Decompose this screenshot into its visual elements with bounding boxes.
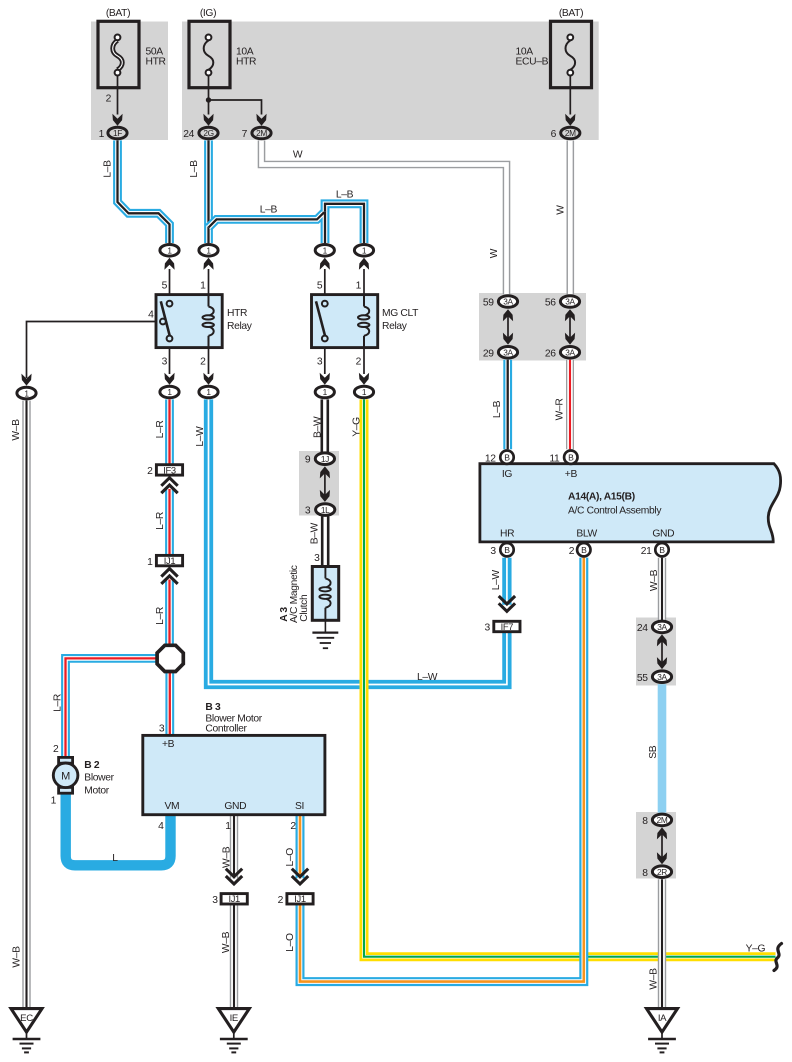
- svg-text:IJ1: IJ1: [164, 555, 176, 566]
- svg-text:HTR: HTR: [236, 56, 256, 67]
- svg-text:B: B: [581, 545, 587, 555]
- svg-text:26: 26: [545, 348, 556, 359]
- svg-text:IJ1: IJ1: [228, 893, 240, 904]
- connector 2 IJ1 below controller SI: [292, 869, 308, 884]
- svg-text:8: 8: [642, 816, 648, 827]
- svg-text:3: 3: [162, 357, 168, 368]
- svg-text:W: W: [556, 205, 567, 215]
- fuse 10A HTR: [189, 21, 230, 87]
- svg-text:HR: HR: [500, 529, 514, 540]
- svg-text:L–B: L–B: [492, 400, 503, 418]
- connector 3 IJ1 below controller GND: [226, 869, 242, 884]
- relay MG CLT Relay: [312, 295, 378, 348]
- svg-text:B–W: B–W: [312, 416, 323, 438]
- wire MG CLT relay pin 2 lead: [363, 348, 365, 374]
- svg-text:L–R: L–R: [155, 421, 166, 439]
- connector 1 below HTR relay pin 3: [164, 373, 174, 385]
- svg-text:B: B: [659, 545, 665, 555]
- svg-text:MG CLT: MG CLT: [382, 308, 419, 319]
- svg-text:IF3: IF3: [163, 464, 176, 475]
- svg-text:24: 24: [637, 623, 648, 634]
- wire L-R from junction to blower motor pin 2: [66, 658, 157, 756]
- svg-text:B 2: B 2: [84, 760, 100, 771]
- svg-text:1: 1: [167, 246, 172, 256]
- svg-text:2: 2: [356, 357, 362, 368]
- svg-text:B–W: B–W: [310, 522, 321, 544]
- connector 1 below MG CLT relay pin 3: [320, 373, 330, 385]
- junction connector 29 3A: [498, 347, 517, 359]
- double arrow between 56 and 26: [569, 315, 571, 338]
- svg-text:3A: 3A: [565, 297, 575, 307]
- double arrow between 1J and 1L: [324, 472, 326, 496]
- svg-text:L–W: L–W: [417, 672, 438, 683]
- pin 3 B connector HR: [500, 543, 513, 556]
- svg-text:(IG): (IG): [200, 8, 216, 19]
- svg-text:3: 3: [317, 357, 323, 368]
- wire W from connector 2M to junction 59 3A: [262, 140, 507, 294]
- svg-text:W–B: W–B: [222, 846, 233, 868]
- svg-text:M: M: [61, 771, 70, 783]
- svg-text:EC: EC: [20, 1013, 33, 1024]
- junction dot: [206, 97, 211, 102]
- svg-text:L: L: [112, 853, 118, 864]
- svg-text:Relay: Relay: [227, 321, 253, 332]
- fuse 50A HTR: [98, 21, 139, 87]
- wire L-O from blower motor controller SI via IJ1 to A/C control assembly BLW: [296, 815, 305, 879]
- connector IJ1: [156, 555, 182, 565]
- blower motor controller B3: [143, 735, 325, 814]
- connector 2M mid: [256, 114, 266, 126]
- svg-text:L–O: L–O: [285, 933, 296, 952]
- svg-text:SB: SB: [648, 745, 659, 759]
- svg-text:L–R: L–R: [155, 607, 166, 625]
- relay HTR Relay: [156, 295, 222, 348]
- wire MG CLT relay pin 3 lead: [324, 348, 326, 374]
- svg-text:VM: VM: [165, 801, 180, 812]
- svg-text:2R: 2R: [657, 867, 667, 877]
- svg-text:B: B: [504, 452, 510, 462]
- svg-text:GND: GND: [652, 529, 674, 540]
- connector 1F: [112, 114, 122, 126]
- svg-text:Relay: Relay: [382, 321, 408, 332]
- svg-text:W–B: W–B: [221, 931, 232, 953]
- svg-text:3: 3: [314, 553, 320, 564]
- svg-text:W–B: W–B: [649, 968, 660, 990]
- svg-text:4: 4: [148, 310, 154, 321]
- wire L-B branch to MG CLT relay pin 5 connector: [209, 211, 326, 243]
- svg-text:B: B: [504, 545, 510, 555]
- svg-text:11: 11: [549, 453, 560, 464]
- svg-text:W–B: W–B: [649, 569, 660, 591]
- svg-text:IJ1: IJ1: [294, 893, 306, 904]
- svg-text:2: 2: [569, 546, 575, 557]
- svg-text:7: 7: [242, 129, 248, 140]
- connector 1 above MG CLT relay pin 1: [359, 258, 369, 270]
- svg-text:2: 2: [106, 94, 112, 105]
- svg-text:2: 2: [290, 821, 296, 832]
- ground EC: [11, 1009, 42, 1053]
- svg-text:5: 5: [317, 281, 323, 292]
- svg-text:Controller: Controller: [205, 724, 247, 735]
- A/C magnetic clutch A3: [312, 567, 338, 621]
- svg-text:1: 1: [51, 796, 57, 807]
- pin 2 B connector BLW: [577, 543, 590, 556]
- svg-text:1: 1: [356, 281, 362, 292]
- connector 1 below MG CLT relay pin 2: [359, 373, 369, 385]
- svg-text:GND: GND: [224, 801, 246, 812]
- svg-text:IG: IG: [502, 469, 513, 480]
- svg-text:L–B: L–B: [103, 160, 114, 178]
- svg-text:8: 8: [642, 868, 648, 879]
- wire fuse 10A HTR lead with junction to 2G and 2M: [209, 75, 262, 114]
- svg-text:3: 3: [490, 546, 496, 557]
- svg-text:2: 2: [147, 466, 153, 477]
- svg-text:1: 1: [206, 246, 211, 256]
- svg-text:W: W: [489, 248, 500, 258]
- svg-text:55: 55: [637, 673, 648, 684]
- wire W-R from junction 26 3A to A/C control assembly +B: [566, 360, 574, 450]
- svg-text:3A: 3A: [503, 348, 513, 358]
- wire HTR relay pin 5 lead: [169, 269, 171, 295]
- svg-text:1: 1: [99, 129, 105, 140]
- connector 1 below HTR relay pin 2: [203, 373, 213, 385]
- A/C control assembly A14/A15: [480, 464, 781, 542]
- svg-text:2M: 2M: [256, 128, 267, 138]
- fuse 10A ECU-B: [551, 21, 592, 87]
- svg-text:5: 5: [162, 281, 168, 292]
- svg-text:L–O: L–O: [285, 848, 296, 867]
- svg-text:ECU–B: ECU–B: [516, 56, 549, 67]
- svg-text:56: 56: [545, 298, 556, 309]
- wire HTR relay pin 1 lead: [208, 269, 210, 295]
- wire L-W from HTR relay pin 2 to A/C control assembly HR via IF7: [209, 399, 507, 684]
- svg-text:24: 24: [183, 129, 194, 140]
- wire L-B branch to MG CLT relay pin 1 connector: [325, 204, 364, 243]
- svg-text:W–B: W–B: [11, 419, 22, 441]
- wire W-B from controller GND through IJ1 to ground IE: [230, 815, 238, 879]
- svg-text:HTR: HTR: [146, 56, 166, 67]
- svg-text:B 3: B 3: [205, 702, 221, 713]
- wire HTR relay pin 4 to left connector: [27, 322, 157, 379]
- svg-text:9: 9: [305, 455, 311, 466]
- blower motor B2: [59, 757, 73, 763]
- svg-text:1F: 1F: [113, 128, 122, 138]
- ground IE: [218, 1009, 249, 1053]
- svg-text:W–R: W–R: [554, 399, 565, 421]
- svg-text:1L: 1L: [321, 505, 330, 515]
- svg-text:3: 3: [159, 724, 165, 735]
- double arrow between 24 and 55: [661, 640, 663, 663]
- wire W-B from 2R connector to ground IA: [658, 879, 666, 1008]
- svg-text:1: 1: [24, 388, 29, 398]
- connector 1 above HTR relay pin 1: [203, 258, 213, 270]
- wire L-R from HTR relay pin 3 connector through IF3 and IJ1 to junction: [165, 399, 174, 464]
- svg-text:Blower: Blower: [84, 773, 114, 784]
- wire fuse 50A HTR lead to connector 1F: [117, 75, 119, 114]
- wire fuse 10A ECU-B lead to connector 2M: [569, 75, 571, 114]
- ground IA: [647, 1009, 678, 1053]
- svg-text:L–B: L–B: [189, 160, 200, 178]
- junction connector 59 3A: [498, 296, 517, 308]
- svg-text:1: 1: [167, 387, 172, 397]
- svg-text:1: 1: [362, 246, 367, 256]
- svg-text:BLW: BLW: [576, 529, 597, 540]
- wire W-B from A/C control assembly GND to junction 24 3A: [658, 558, 666, 620]
- wire L from blower motor pin 1 to controller VM: [66, 794, 171, 866]
- pin 11 B connector +B: [564, 451, 577, 464]
- svg-text:SI: SI: [295, 801, 304, 812]
- svg-text:2: 2: [278, 895, 284, 906]
- connector 1 above HTR relay pin 5: [164, 258, 174, 270]
- wire HTR relay pin 2 lead: [208, 348, 210, 374]
- junction connector panel 3A: [479, 293, 586, 361]
- svg-text:L–B: L–B: [260, 204, 278, 215]
- svg-text:1J: 1J: [321, 454, 329, 464]
- svg-text:1: 1: [362, 387, 367, 397]
- junction connector 24 3A: [652, 621, 671, 633]
- wire HTR relay pin 3 lead: [169, 348, 171, 374]
- svg-text:L–W: L–W: [491, 570, 502, 591]
- svg-text:+B: +B: [162, 739, 175, 750]
- junction connector panel 2M/2R: [636, 812, 676, 879]
- junction connector 56 3A: [560, 296, 579, 308]
- junction connector 55 3A: [652, 671, 671, 683]
- wire B-W from 1L to A/C magnetic clutch: [321, 517, 330, 567]
- svg-text:IA: IA: [658, 1013, 667, 1024]
- svg-text:1: 1: [200, 281, 206, 292]
- wire L-B from connector 1F to HTR relay pin 5 connector: [118, 140, 170, 243]
- svg-text:2M: 2M: [565, 128, 576, 138]
- svg-text:Y–G: Y–G: [746, 943, 766, 954]
- junction connector 3 1L: [316, 504, 335, 516]
- ground below A/C magnetic clutch: [324, 620, 326, 632]
- svg-text:L–R: L–R: [155, 512, 166, 530]
- connector 2M right: [565, 114, 575, 126]
- connector 2G: [203, 114, 213, 126]
- pin 21 B connector GND: [655, 543, 668, 556]
- svg-text:1: 1: [323, 246, 328, 256]
- svg-text:3A: 3A: [503, 297, 513, 307]
- svg-text:HTR: HTR: [227, 308, 247, 319]
- svg-text:4: 4: [158, 821, 164, 832]
- wire continuation squiggle at right edge: [774, 944, 782, 971]
- connector IF7: [499, 596, 515, 611]
- junction connector 26 3A: [560, 347, 579, 359]
- svg-text:(BAT): (BAT): [559, 8, 583, 19]
- svg-text:6: 6: [551, 129, 557, 140]
- svg-text:Y–G: Y–G: [351, 417, 362, 437]
- svg-text:L–B: L–B: [336, 189, 354, 200]
- double arrow between 59 and 29: [507, 315, 509, 338]
- svg-text:3: 3: [305, 506, 311, 517]
- svg-text:L–W: L–W: [195, 426, 206, 447]
- svg-text:Motor: Motor: [84, 786, 109, 797]
- connector 8 2R: [652, 866, 671, 878]
- junction connector panel 1J/1L: [299, 451, 339, 516]
- svg-text:21: 21: [641, 546, 652, 557]
- wire W-B from left connector to ground EC: [22, 401, 30, 1009]
- svg-text:W–B: W–B: [11, 946, 22, 968]
- connector IF3: [156, 465, 182, 475]
- wire MG CLT relay pin 1 lead: [363, 269, 365, 295]
- svg-text:59: 59: [483, 298, 494, 309]
- wire MG CLT relay pin 5 lead: [324, 269, 326, 295]
- svg-text:1: 1: [147, 557, 153, 568]
- wire W from connector 6 2M to junction 56 3A: [566, 140, 574, 294]
- svg-text:1: 1: [206, 387, 211, 397]
- svg-text:B: B: [568, 452, 574, 462]
- svg-text:A/C Control Assembly: A/C Control Assembly: [568, 505, 662, 516]
- svg-text:A14(A), A15(B): A14(A), A15(B): [568, 491, 635, 502]
- double arrow between 2M and 2R: [661, 833, 663, 858]
- fuse block panel left: [91, 22, 168, 141]
- svg-text:2G: 2G: [203, 128, 213, 138]
- junction connector 9 1J: [315, 453, 334, 465]
- wire Y-G from MG CLT relay pin 2 to right edge: [364, 399, 776, 956]
- svg-text:1: 1: [323, 387, 328, 397]
- svg-text:(BAT): (BAT): [106, 8, 130, 19]
- svg-text:3A: 3A: [657, 672, 667, 682]
- svg-text:W: W: [293, 150, 303, 161]
- connector 1 at left for pin 4 wire: [21, 374, 31, 386]
- pin 12 B connector IG: [500, 451, 513, 464]
- svg-text:2: 2: [53, 744, 59, 755]
- svg-text:3A: 3A: [565, 348, 575, 358]
- svg-text:3: 3: [485, 623, 491, 634]
- svg-text:IF7: IF7: [501, 621, 514, 632]
- svg-text:+B: +B: [565, 469, 578, 480]
- svg-text:3: 3: [212, 895, 218, 906]
- wire L-B from connector 2G to HTR relay pin 1 connector: [204, 140, 213, 243]
- svg-text:IE: IE: [230, 1013, 238, 1024]
- junction connector panel 3A right: [636, 618, 676, 686]
- svg-text:3A: 3A: [657, 622, 667, 632]
- fuse/junction block panel right: [182, 22, 599, 141]
- wire L-R from junction to blower motor controller +B: [165, 673, 174, 736]
- svg-text:Clutch: Clutch: [299, 594, 310, 622]
- connector 1 above MG CLT relay pin 5: [320, 258, 330, 270]
- wire SB from junction 55 3A to connector 8 2M: [658, 684, 667, 812]
- svg-text:2: 2: [200, 357, 206, 368]
- svg-text:L–R: L–R: [52, 694, 63, 712]
- junction octagon node: [157, 645, 183, 671]
- svg-text:2M: 2M: [657, 815, 668, 825]
- wire L-B from junction 29 3A to A/C control assembly IG: [503, 360, 512, 450]
- svg-text:12: 12: [485, 453, 496, 464]
- svg-text:29: 29: [483, 348, 494, 359]
- wire B-W from MG CLT relay pin 3 connector to 1J: [320, 399, 329, 452]
- connector 8 2M: [652, 814, 671, 826]
- svg-text:1: 1: [225, 821, 231, 832]
